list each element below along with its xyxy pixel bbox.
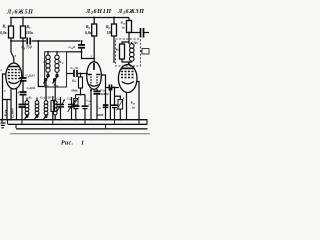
wire to y96 rail	[114, 88, 116, 97]
coil L6	[36, 98, 38, 101]
node grid2	[80, 73, 82, 75]
caption	[61, 141, 84, 147]
ground chassis	[1, 120, 3, 122]
wire tube2 right lead	[101, 75, 105, 120]
bus C	[15, 125, 17, 128]
capacitor C5	[19, 104, 26, 106]
node grid junction	[10, 40, 12, 42]
wire grid3	[112, 87, 119, 89]
label B1	[28, 96, 32, 101]
capacitor C12 cathode	[96, 89, 98, 91]
svg-text:С108: С108	[69, 45, 76, 50]
switch П1б	[56, 73, 58, 74]
wire y41 right	[32, 40, 81, 42]
grid rows3	[121, 71, 135, 73]
variable capacitor C9	[71, 97, 73, 104]
svg-text:Рис.: Рис.	[61, 141, 74, 147]
anode bar3	[122, 67, 135, 69]
node R8 top	[113, 17, 115, 19]
resistor R4	[10, 18, 12, 27]
svg-text:С3 750: С3 750	[22, 46, 32, 51]
svg-text:Др1: Др1	[133, 41, 139, 46]
tube Л2 envelope	[87, 62, 102, 90]
wire switch leads	[46, 81, 55, 120]
coil L4	[56, 52, 58, 55]
grid bar	[88, 74, 100, 76]
resistor R9 in T2	[120, 44, 125, 59]
wire tube3 cathode lead	[126, 92, 128, 120]
wire to C18	[129, 32, 140, 34]
node R10 bottom	[128, 32, 130, 34]
rule	[10, 132, 150, 135]
svg-text:6800: 6800	[97, 113, 104, 117]
plate bar	[93, 63, 95, 70]
svg-text:R5: R5	[27, 25, 32, 30]
anode bar	[9, 66, 20, 68]
label C7	[40, 96, 51, 101]
wire heater lead	[6, 100, 8, 121]
cathode arc	[9, 82, 20, 84]
resistor R6	[93, 18, 95, 25]
variable capacitor C8	[60, 97, 62, 104]
capacitor C18	[141, 28, 144, 38]
capacitor C11	[67, 73, 74, 75]
varistor R12	[119, 96, 121, 99]
tube Л1 envelope	[6, 63, 22, 89]
grid dashes	[90, 77, 92, 85]
tube Л3 envelope	[118, 65, 137, 93]
resistor bottom mid	[51, 101, 55, 112]
svg-text:Л36Ж3П: Л36Ж3П	[117, 8, 145, 15]
svg-text:С60,01: С60,01	[27, 86, 36, 91]
node AVC line	[37, 40, 39, 42]
node tube2 plate	[93, 58, 95, 60]
varistor R11	[75, 95, 77, 99]
wire C17 down lead	[109, 88, 111, 121]
wire y99	[3, 99, 12, 101]
cathode arc2	[90, 85, 99, 87]
svg-text:7: 7	[4, 89, 6, 93]
svg-text:5: 5	[15, 54, 17, 58]
label R13	[131, 101, 136, 110]
node R5 top	[22, 17, 24, 19]
svg-text:R4: R4	[3, 25, 8, 30]
svg-text:R12: R12	[72, 79, 77, 84]
svg-text:+: +	[88, 103, 90, 107]
svg-text:6,8к: 6,8к	[85, 31, 91, 35]
capacitor C10	[81, 41, 83, 44]
capacitor C13	[75, 105, 77, 106]
resistor R5	[22, 18, 24, 27]
resistor R10	[128, 18, 130, 21]
svg-text:820: 820	[104, 92, 109, 96]
wire tube2 leads	[90, 89, 92, 120]
tube label Л3 6Ж3П	[117, 8, 145, 15]
bus junction dots	[10, 119, 140, 121]
node R6 top	[93, 17, 95, 19]
bus ticks	[22, 120, 139, 128]
svg-text:R8: R8	[106, 25, 111, 30]
label C5 4900 rotated	[10, 108, 15, 118]
capacitor C2	[20, 91, 27, 93]
svg-text:1: 1	[81, 141, 84, 147]
wire tube3 screen lead	[136, 82, 139, 121]
wire T2 top	[122, 42, 129, 44]
capacitor C17 coupling	[106, 87, 109, 89]
resistor R7 grid leak	[80, 74, 82, 78]
svg-text:1к: 1к	[122, 26, 126, 30]
coil Dr1	[130, 44, 135, 49]
svg-text:1: 1	[0, 68, 2, 72]
svg-text:С15: С15	[97, 106, 102, 111]
bus ground upper	[0, 119, 148, 120]
node C10 top	[81, 40, 83, 42]
wire top supply bus	[10, 17, 129, 19]
wire tube1 cathode lead	[10, 89, 12, 120]
wire y94.6	[76, 94, 86, 96]
svg-text:В1: В1	[28, 96, 32, 101]
wire AVC drop	[38, 41, 44, 87]
connector box right	[142, 49, 149, 55]
capacitor C4	[20, 77, 27, 79]
tube label Л2 6Н1П	[85, 8, 112, 15]
cathode arc3	[122, 82, 134, 84]
svg-text:С74,5-30: С74,5-30	[40, 96, 51, 101]
wire tube1 lead2	[16, 89, 18, 120]
svg-text:L4: L4	[59, 60, 64, 65]
coil L5	[26, 98, 28, 101]
wire tube1 left lead	[3, 74, 6, 120]
svg-text:С54900: С54900	[10, 108, 15, 118]
capacitor C15	[103, 104, 109, 106]
svg-text:110к: 110к	[26, 31, 33, 35]
svg-text:6,8к: 6,8к	[0, 31, 6, 35]
coil box T1	[45, 52, 67, 87]
switch П1а	[47, 73, 49, 74]
coil L7	[44, 101, 48, 105]
svg-text:Л26Н1П: Л26Н1П	[85, 8, 112, 15]
svg-text:С40,01: С40,01	[26, 74, 36, 79]
resistor R8	[113, 18, 115, 25]
svg-text:1М: 1М	[107, 31, 113, 35]
label R3 rotated	[3, 109, 8, 116]
wire tube1 grid lead	[11, 41, 14, 63]
grid rows	[8, 69, 20, 71]
tube label Л1 6Ж5П	[6, 9, 34, 16]
wire T2 bottom	[122, 59, 132, 65]
coil L8	[53, 101, 57, 105]
shield box T2 dashed	[116, 39, 141, 66]
capacitor C3	[27, 38, 30, 45]
switch contacts bottom	[26, 116, 28, 118]
svg-text:R31к: R31к	[3, 109, 8, 116]
wire box top to C10 line	[67, 51, 82, 53]
capacitor C19	[114, 96, 116, 105]
coil L3	[47, 52, 49, 55]
svg-text:Л16Ж5П: Л16Ж5П	[6, 9, 34, 16]
svg-text:R6: R6	[86, 25, 91, 30]
svg-text:430к: 430к	[70, 89, 78, 93]
bus B	[8, 120, 148, 123]
svg-text:1к: 1к	[132, 106, 136, 110]
capacitor C16 electrolytic	[84, 95, 86, 106]
wire y41	[11, 40, 26, 42]
